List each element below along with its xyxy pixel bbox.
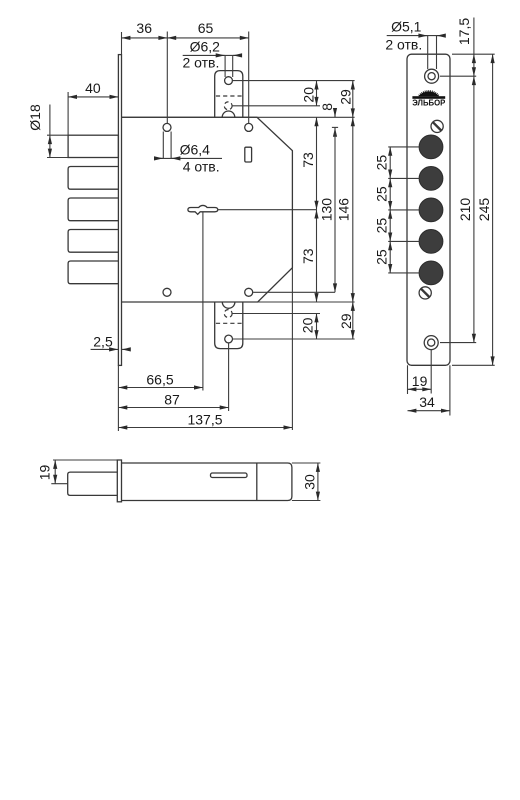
dim 73 upper [316, 117, 318, 209]
svg-text:19: 19 [412, 373, 428, 389]
dim 36 [122, 37, 168, 39]
side view body top ext [292, 462, 321, 464]
elbor logo bar [412, 96, 445, 99]
ext top hole right [440, 75, 476, 77]
svg-text:210: 210 [457, 198, 473, 222]
top mounting hole [425, 69, 439, 83]
svg-text:ЭЛЬБОР: ЭЛЬБОР [412, 98, 445, 108]
svg-text:4 отв.: 4 отв. [183, 159, 220, 175]
dim 34 [408, 410, 450, 412]
callout dia6.4 leader [155, 157, 223, 159]
svg-text:66,5: 66,5 [146, 371, 173, 387]
dim 65 [167, 37, 248, 39]
elbor logo crown [419, 91, 440, 96]
ext plate bottom right [452, 364, 495, 366]
faceplate front view [407, 54, 450, 365]
body right edge extension line [291, 268, 293, 430]
svg-text:2,5: 2,5 [93, 334, 113, 350]
side view bolt [68, 472, 118, 495]
dim 2.5 [91, 348, 118, 350]
dim 87 [118, 407, 228, 409]
keyhole vertical extension [202, 213, 204, 391]
body top edge extension [122, 116, 355, 118]
small slot [245, 147, 252, 162]
deadbolt 5 [68, 261, 118, 284]
svg-text:Ø6,2: Ø6,2 [190, 39, 221, 55]
bottom lug hole [225, 335, 233, 343]
dim 8 [334, 111, 336, 118]
side view plate top line [53, 459, 117, 461]
dim dia18 line [49, 135, 51, 157]
svg-text:40: 40 [85, 80, 101, 96]
bolt circle 4 [419, 230, 443, 254]
ext plate right bottom [449, 365, 451, 415]
ext bottom hole right [440, 342, 476, 344]
deadbolt 2 [68, 167, 118, 190]
dim 30 side [317, 463, 319, 501]
dim 20 top [316, 81, 318, 106]
dim 40 extension left [67, 92, 69, 135]
svg-text:87: 87 [164, 392, 180, 408]
bolt circle 1 [419, 135, 443, 159]
top lug hole [225, 77, 233, 85]
top lug dashed line [216, 95, 242, 97]
top lug hidden hole [224, 102, 232, 110]
callout dia6.4 ext lines [162, 132, 164, 159]
side view slot [211, 473, 248, 478]
side view bolt center ext [51, 483, 67, 485]
dim 137.5 [118, 427, 292, 429]
side view faceplate [117, 460, 121, 502]
side view body bottom ext [292, 500, 321, 502]
svg-text:25: 25 [374, 186, 390, 202]
svg-text:29: 29 [338, 313, 354, 329]
callout dia6.2 leader [183, 54, 237, 56]
svg-text:19: 19 [37, 465, 53, 481]
dim 130 [334, 127, 336, 292]
dim 36-65 ext right [248, 32, 250, 124]
top lug arc [222, 111, 235, 117]
deadbolt 4 [68, 230, 118, 253]
svg-text:2 отв.: 2 отв. [385, 37, 422, 53]
top mounting lug [215, 71, 243, 118]
ext faceplate bottom [117, 365, 119, 431]
svg-text:36: 36 [136, 20, 152, 36]
dim 245 [492, 54, 494, 365]
screw bottom [419, 287, 431, 299]
callout dia5.1 [427, 36, 429, 69]
screw top [431, 120, 443, 132]
ext lines bolt circles [388, 146, 419, 148]
svg-text:20: 20 [301, 87, 317, 103]
bottom lug hidden hole [224, 310, 232, 318]
dim 146 [352, 117, 354, 302]
ext plate top right [452, 53, 495, 55]
dim 73 lower [316, 210, 318, 302]
hole 6.4 bottom-right [245, 288, 253, 296]
bottom lug dashed line [216, 322, 242, 324]
dim dia18 ext bottom [47, 157, 68, 159]
ext top hole row tick [332, 126, 338, 128]
ext top hidden hole line [233, 105, 321, 107]
svg-text:34: 34 [419, 394, 435, 410]
svg-text:Ø5,1: Ø5,1 [391, 18, 422, 34]
ext bottom hole row line [253, 291, 335, 293]
dim 17.5 [473, 18, 475, 55]
ext top lug hole line [233, 80, 355, 82]
bolt circle 3 [419, 198, 443, 222]
svg-text:25: 25 [374, 249, 390, 265]
dim 66.5 [118, 387, 202, 389]
hole 6.4 top-left [163, 123, 171, 131]
svg-text:30: 30 [302, 474, 318, 490]
hole 6.4 bottom-left [163, 288, 171, 296]
bolt circle 2 [419, 167, 443, 191]
svg-text:17,5: 17,5 [456, 18, 472, 45]
svg-text:146: 146 [336, 198, 352, 222]
svg-text:20: 20 [299, 317, 315, 333]
keyhole center line [218, 209, 317, 211]
svg-text:29: 29 [338, 89, 354, 105]
bottom mounting lug [215, 302, 243, 349]
dim 36-65 ext mid [166, 32, 168, 124]
bolt circle 5 [419, 261, 443, 285]
svg-text:137,5: 137,5 [187, 412, 222, 428]
dim 19 side [54, 460, 56, 484]
svg-text:25: 25 [374, 218, 390, 234]
dim dia18 ext top [47, 134, 68, 136]
dim 25 chain [389, 147, 391, 179]
svg-text:73: 73 [300, 248, 316, 264]
svg-text:73: 73 [300, 152, 316, 168]
svg-text:245: 245 [476, 198, 492, 222]
dim 29 top [352, 81, 354, 118]
svg-text:Ø6,4: Ø6,4 [180, 142, 211, 158]
ext hole center bottom [430, 350, 432, 394]
svg-text:25: 25 [374, 155, 390, 171]
ext bottom lug hole line [233, 338, 355, 340]
side view body [122, 463, 292, 501]
deadbolt 1 (extended, dia 18) [68, 135, 118, 157]
lock body outline [122, 117, 293, 302]
deadbolt 3 [68, 198, 118, 221]
dim 210 [473, 76, 475, 342]
faceplate edge strip [118, 55, 121, 366]
ext lug hole bottom [228, 343, 230, 411]
dim 29 bottom [352, 302, 354, 339]
svg-text:130: 130 [318, 198, 334, 222]
svg-text:8: 8 [319, 103, 335, 111]
side view divider [256, 463, 258, 501]
svg-text:65: 65 [198, 20, 214, 36]
bottom mounting hole [424, 336, 438, 350]
keyhole [188, 205, 218, 214]
body bottom edge extension [122, 301, 355, 303]
svg-text:Ø18: Ø18 [27, 104, 43, 131]
ext plate left bottom [407, 365, 409, 394]
bottom lug arc [222, 302, 235, 308]
ext bottom hidden hole line [233, 313, 321, 315]
svg-text:2 отв.: 2 отв. [182, 55, 219, 71]
dim 36-65 ext faceplate [121, 32, 123, 55]
dim 40 [68, 96, 118, 98]
hole 6.4 top-right [245, 123, 253, 131]
dim 19 [408, 388, 432, 390]
callout dia6.2 ext lines [224, 55, 226, 77]
dim 20 bottom [316, 314, 318, 340]
